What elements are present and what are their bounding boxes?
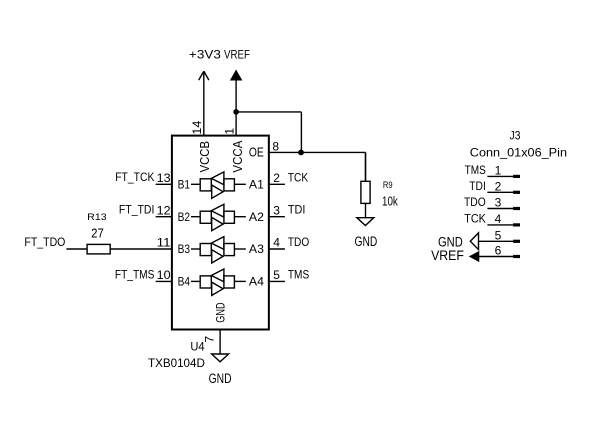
buffer cell 3 [191, 237, 246, 263]
svg-text:TDO: TDO [288, 235, 309, 249]
pin 12 B2 [156, 203, 191, 224]
svg-text:FT_TMS: FT_TMS [115, 267, 155, 281]
buffer cell 2 [191, 204, 246, 230]
svg-text:27: 27 [91, 226, 104, 241]
svg-text:3: 3 [495, 196, 502, 210]
svg-text:VREF: VREF [431, 248, 464, 263]
svg-text:OE: OE [249, 145, 264, 160]
svg-text:FT_TCK: FT_TCK [115, 170, 154, 184]
wire R9 to ground [365, 203, 367, 217]
wire pin7 to ground [219, 330, 221, 355]
svg-text:A4: A4 [249, 275, 264, 289]
pin 1 VCCA [222, 128, 245, 173]
svg-text:12: 12 [157, 203, 171, 217]
buffer cell 1 [191, 172, 246, 198]
svg-text:6: 6 [495, 244, 502, 258]
svg-text:5: 5 [273, 268, 280, 282]
svg-text:10k: 10k [382, 193, 398, 208]
pin 14 VCCB [190, 120, 212, 172]
pin 2 A1 [249, 171, 285, 192]
svg-text:A1: A1 [249, 177, 264, 191]
wire R13 to pin 11 [110, 248, 172, 250]
svg-text:2: 2 [495, 179, 502, 193]
svg-text:10: 10 [157, 268, 171, 282]
svg-text:B3: B3 [178, 242, 191, 256]
wire VREF branch horizontal [236, 111, 301, 113]
svg-text:A2: A2 [249, 210, 264, 224]
svg-text:2: 2 [273, 171, 280, 185]
svg-text:+3V3: +3V3 [189, 48, 221, 62]
pin 5 A4 [249, 268, 285, 289]
svg-text:Conn_01x06_Pin: Conn_01x06_Pin [470, 146, 567, 160]
svg-text:5: 5 [495, 228, 502, 242]
svg-text:GND: GND [209, 371, 232, 386]
svg-text:FT_TDO: FT_TDO [24, 235, 65, 249]
pin 7 GND [203, 302, 228, 342]
svg-text:J3: J3 [510, 128, 521, 142]
svg-text:11: 11 [157, 236, 171, 250]
svg-text:VREF: VREF [224, 48, 250, 62]
svg-text:TMS: TMS [465, 163, 486, 177]
pin 13 B1 [156, 171, 191, 192]
pin 10 B4 [156, 268, 191, 289]
svg-text:1: 1 [222, 128, 236, 135]
resistor R13 [87, 244, 110, 254]
pin 8 OE [249, 139, 279, 159]
wire VREF branch vertical [300, 112, 302, 152]
ground symbol under R9 [357, 218, 374, 226]
svg-text:14: 14 [190, 120, 204, 134]
svg-text:4: 4 [495, 212, 502, 226]
svg-text:8: 8 [272, 139, 279, 153]
svg-text:TDO: TDO [464, 195, 486, 209]
svg-text:B2: B2 [178, 210, 191, 224]
ground symbol under U4 [212, 354, 229, 362]
junction on VREF line [233, 109, 239, 115]
wire R9 top [365, 152, 367, 181]
J3 pin 2 TDI [469, 179, 520, 194]
op-amp U4 body TXB0104D [172, 136, 269, 330]
junction on OE wire [298, 150, 304, 156]
svg-text:R9: R9 [383, 180, 393, 190]
svg-text:7: 7 [203, 336, 217, 343]
J3 pin 4 TCK [464, 212, 520, 227]
svg-text:VCCB: VCCB [197, 141, 212, 172]
svg-text:A3: A3 [249, 242, 264, 256]
svg-text:TDI: TDI [288, 203, 306, 217]
svg-text:B4: B4 [178, 275, 191, 289]
svg-text:FT_TDI: FT_TDI [119, 203, 155, 217]
svg-text:TCK: TCK [464, 212, 486, 226]
svg-text:13: 13 [157, 171, 171, 185]
svg-text:1: 1 [495, 163, 502, 177]
svg-text:3: 3 [273, 203, 280, 217]
J3 pin 1 TMS [465, 163, 520, 178]
wire pin8 OE to R9 [269, 152, 366, 181]
pin 3 A2 [249, 203, 285, 224]
svg-text:B1: B1 [178, 177, 191, 191]
svg-text:TXB0104D: TXB0104D [148, 356, 205, 370]
wire FT_TDO to R13 [66, 248, 87, 250]
svg-text:TMS: TMS [288, 267, 309, 281]
svg-text:TCK: TCK [288, 170, 308, 184]
J3 pin 6 VREF power symbol [431, 244, 520, 264]
svg-text:4: 4 [273, 236, 280, 250]
svg-text:GND: GND [214, 302, 228, 323]
svg-text:R13: R13 [87, 212, 106, 222]
pin 4 A3 [249, 236, 285, 257]
svg-text:TDI: TDI [469, 179, 486, 193]
power VREF symbol [231, 71, 242, 136]
svg-text:VCCA: VCCA [230, 140, 245, 172]
buffer cell 4 [191, 269, 246, 295]
svg-text:GND: GND [355, 234, 378, 249]
power +3V3 symbol [199, 71, 209, 135]
J3 pin 3 TDO [464, 195, 520, 210]
pin 11 B3 [157, 236, 191, 257]
resistor R9 [361, 181, 370, 203]
J3 pin 5 GND power symbol [438, 228, 520, 249]
